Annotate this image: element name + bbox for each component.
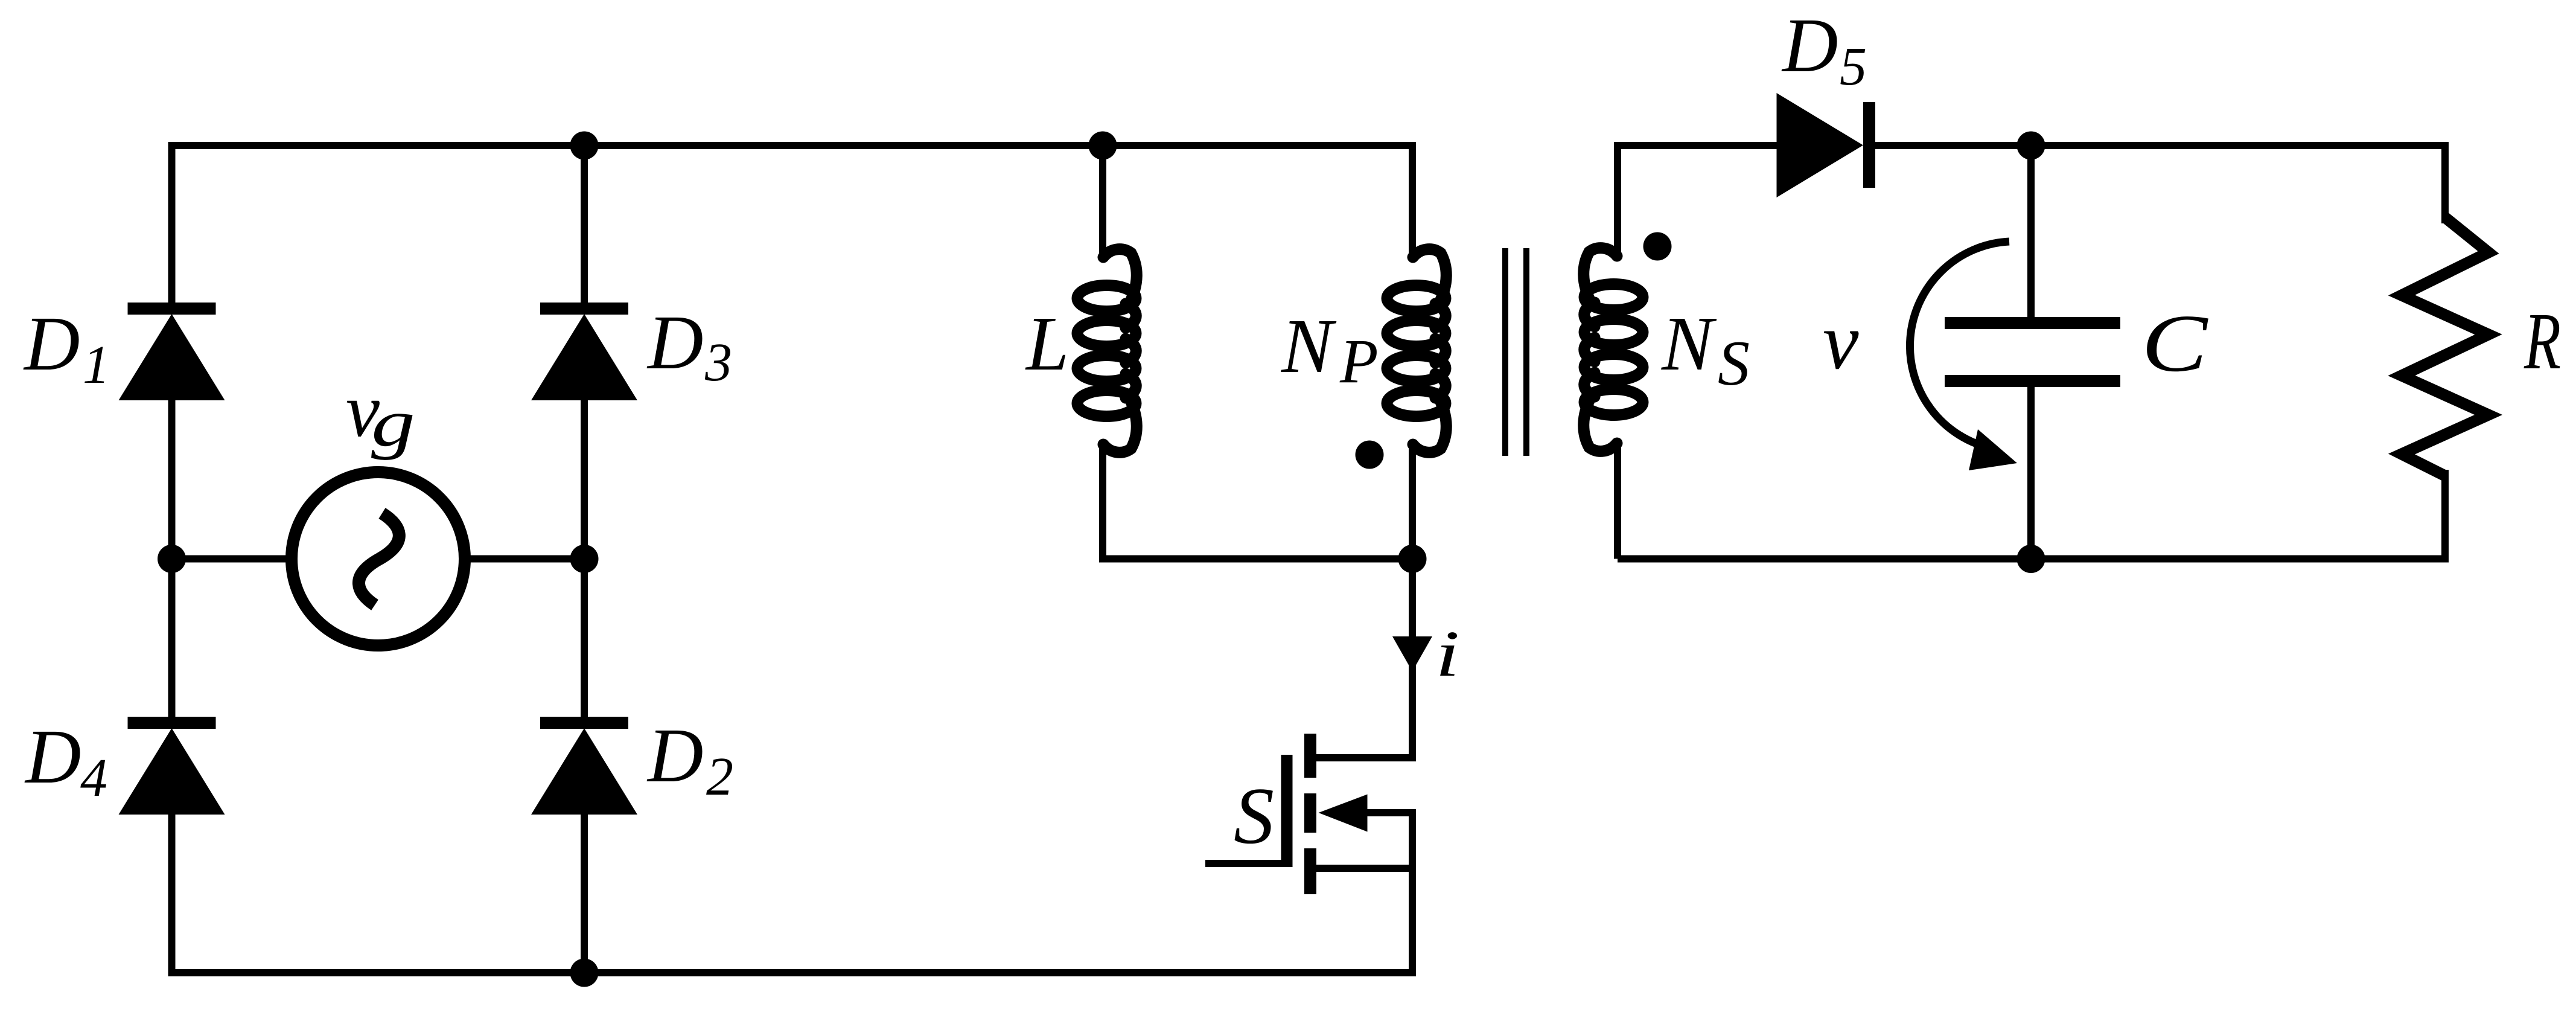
svg-text:D: D	[646, 712, 703, 798]
svg-text:S: S	[1234, 771, 1274, 860]
svg-text:C: C	[2141, 298, 2208, 389]
svg-text:D: D	[23, 301, 80, 386]
svg-text:3: 3	[704, 333, 732, 392]
svg-text:4: 4	[80, 748, 107, 808]
svg-text:D: D	[24, 714, 81, 799]
svg-text:1: 1	[83, 335, 110, 395]
svg-text:D: D	[646, 299, 703, 385]
svg-text:N: N	[1661, 301, 1717, 386]
svg-text:D: D	[1781, 2, 1838, 88]
svg-text:2: 2	[706, 747, 733, 807]
svg-text:N: N	[1281, 303, 1337, 389]
svg-text:5: 5	[1840, 37, 1867, 97]
svg-text:L: L	[1025, 301, 1069, 386]
svg-text:P: P	[1339, 327, 1379, 396]
svg-text:v: v	[1823, 296, 1859, 386]
svg-text:R: R	[2523, 296, 2561, 386]
svg-text:g: g	[371, 386, 415, 461]
svg-text:S: S	[1718, 328, 1750, 399]
svg-text:i: i	[1435, 618, 1459, 690]
